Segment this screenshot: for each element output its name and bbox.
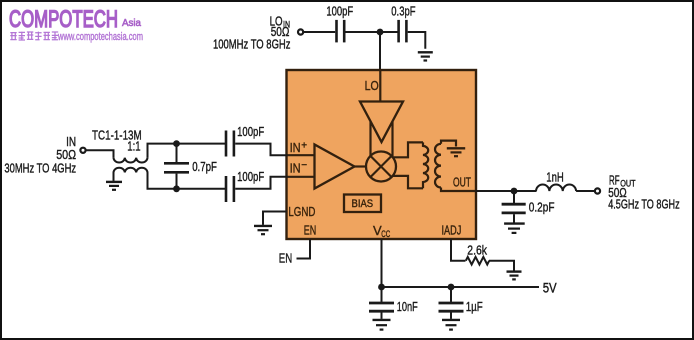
wire C1 to node — [346, 31, 399, 33]
wire inductor to RF terminal — [576, 190, 594, 192]
svg-text:LGND: LGND — [288, 204, 315, 219]
node LO — [377, 29, 384, 36]
svg-text:1:1: 1:1 — [127, 140, 140, 154]
capacitor 1uF — [450, 287, 452, 302]
wire 0.3pF to ground — [408, 32, 426, 49]
terminal LO input — [298, 29, 303, 34]
svg-text:−: − — [301, 160, 307, 171]
ground (balun secondary, inside IC) — [447, 148, 465, 156]
balun secondary winding — [435, 144, 441, 188]
svg-text:4.5GHz TO 8GHz: 4.5GHz TO 8GHz — [608, 198, 680, 212]
node RF out — [511, 188, 518, 195]
wire mixer to balun primary (bottom) — [393, 176, 423, 188]
wire secondary left to ground — [113, 173, 115, 181]
svg-text:CC: CC — [381, 229, 390, 240]
op-amp LO buffer (triangle) — [360, 102, 403, 143]
ground (1uF) — [442, 320, 460, 330]
wire mixer to balun primary (top) — [393, 142, 423, 157]
capacitor 100pF (IN+) — [226, 131, 234, 157]
wire LO stub inside IC — [379, 70, 381, 102]
capacitor 0.2pF — [513, 191, 515, 203]
wire secondary bottom to OUT — [441, 188, 476, 192]
svg-text:100pF: 100pF — [237, 169, 264, 184]
wire LO buffer to mixer (differential pair) — [369, 122, 371, 157]
node top rail — [173, 140, 180, 147]
wire secondary right to bottom rail — [148, 173, 226, 189]
svg-text:www.compotechasia.com: www.compotechasia.com — [57, 31, 143, 43]
svg-text:0.7pF: 0.7pF — [192, 159, 217, 174]
ground (10nF) — [373, 320, 391, 330]
svg-text:5V: 5V — [543, 281, 557, 296]
node VCC/10nF — [378, 284, 385, 291]
wire IADJ pin — [451, 239, 466, 261]
svg-text:+: + — [301, 140, 307, 151]
wire LGND to ground — [263, 212, 287, 225]
wire LO node down to IC — [379, 32, 381, 70]
ground (2.6k) — [507, 272, 522, 280]
wire amp to mixer — [355, 165, 367, 167]
node 1uF — [448, 284, 455, 291]
ground (0.3pF) — [418, 52, 433, 60]
svg-text:COMPOTECH: COMPOTECH — [9, 6, 118, 33]
ground (LGND) — [254, 226, 272, 234]
wire 100pF to IN+ — [235, 144, 287, 156]
transformer T1 primary winding — [114, 158, 148, 163]
wire OUT to node — [476, 190, 537, 192]
svg-text:50Ω: 50Ω — [56, 147, 76, 162]
svg-text:LO: LO — [365, 78, 379, 93]
svg-text:1nH: 1nH — [546, 170, 564, 185]
logo chinese characters 智慧電子設計 (stylized) — [10, 32, 58, 41]
svg-text:BIAS: BIAS — [352, 198, 374, 210]
svg-text:100MHz TO 8GHz: 100MHz TO 8GHz — [213, 38, 291, 52]
IC body LTC5548 — [287, 70, 477, 239]
ground (0.2pF) — [504, 224, 525, 233]
svg-text:1µF: 1µF — [466, 299, 483, 314]
wire EN pin — [297, 239, 311, 259]
svg-text:IADJ: IADJ — [442, 222, 462, 237]
transformer T1 secondary winding — [114, 168, 148, 173]
svg-text:100pF: 100pF — [326, 3, 353, 18]
balun primary winding — [423, 142, 428, 188]
BIAS box — [344, 195, 381, 213]
wire primary to top rail — [148, 144, 226, 158]
wire secondary top to ground — [441, 141, 456, 147]
svg-text:0.3pF: 0.3pF — [391, 3, 415, 18]
wire VCC pin to 5V rail — [381, 239, 383, 287]
inductor 1nH — [536, 184, 576, 191]
capacitor 0.3pF — [399, 20, 407, 43]
wire LO terminal to C1 — [304, 31, 335, 33]
svg-text:EN: EN — [304, 223, 317, 238]
svg-text:2.6k: 2.6k — [467, 242, 487, 257]
wire IN terminal to transformer — [86, 150, 113, 157]
svg-text:IN: IN — [290, 140, 301, 155]
wire IN- inside IC — [288, 176, 315, 178]
svg-text:OUT: OUT — [453, 174, 471, 189]
svg-text:10nF: 10nF — [397, 299, 418, 314]
svg-text:30MHz TO 4GHz: 30MHz TO 4GHz — [4, 161, 76, 175]
resistor 2.6k — [466, 257, 489, 265]
svg-text:Asia: Asia — [122, 17, 141, 29]
wire IN+ inside IC — [288, 154, 315, 156]
node bottom rail — [173, 185, 180, 192]
mixer U1 (circle with X) — [366, 152, 396, 182]
terminal RF out — [595, 188, 600, 193]
capacitor 100pF (LO) — [337, 20, 345, 43]
wire 2.6k to ground — [489, 261, 514, 271]
svg-text:0.2pF: 0.2pF — [529, 200, 555, 215]
wire 100pF to IN- — [235, 177, 287, 189]
ground (transformer secondary) — [106, 182, 122, 190]
terminal IN — [80, 148, 85, 153]
capacitor 10nF — [381, 287, 383, 302]
svg-text:IN: IN — [290, 160, 301, 175]
op-amp input amplifier (triangle) — [315, 145, 355, 189]
svg-text:EN: EN — [279, 251, 292, 266]
wire 5V rail — [382, 286, 540, 288]
capacitor 0.7pF — [176, 144, 178, 162]
capacitor 100pF (IN-) — [226, 176, 234, 202]
svg-text:100pF: 100pF — [237, 124, 264, 139]
